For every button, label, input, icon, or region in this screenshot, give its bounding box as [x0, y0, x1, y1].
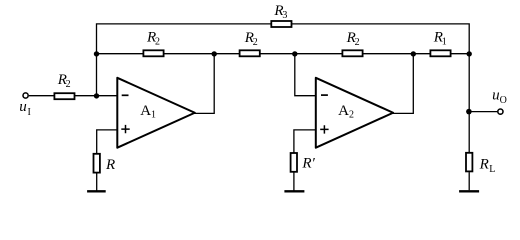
input terminal circle: [23, 93, 28, 98]
A2 minus sign: [321, 94, 328, 96]
op-amp A1: [117, 78, 195, 148]
A1 minus sign: [122, 94, 129, 96]
resistor R' (vertical): [291, 153, 297, 172]
wire A2 noninverting input down to R': [294, 130, 316, 153]
wire second rail (R2 chain): [97, 53, 470, 55]
wire output node to output terminal: [469, 111, 497, 113]
ground under R: [87, 190, 106, 192]
resistor R3: [271, 21, 291, 27]
wire rail down to A2 inverting input: [295, 54, 316, 96]
wire A1 noninverting input down to R: [97, 130, 118, 154]
resistor R2 third in rail: [342, 50, 362, 56]
svg-text:R′: R′: [301, 156, 315, 172]
wire RL to ground: [468, 172, 470, 190]
junction dot A1 output on rail: [212, 51, 217, 56]
resistor R (vertical): [94, 154, 100, 173]
svg-text:R: R: [105, 157, 115, 173]
wire input terminal to A1 inverting input: [29, 95, 117, 97]
resistor R2 second in rail: [240, 50, 260, 56]
A1 plus sign: [121, 125, 129, 133]
resistor RL (vertical): [466, 153, 472, 172]
wire A1 output up to rail: [194, 54, 214, 114]
junction dot rail right: [467, 51, 472, 56]
ground under R': [284, 190, 304, 192]
op-amp A2: [316, 78, 393, 148]
wire R' to ground: [293, 173, 295, 192]
resistor R2 first in rail: [143, 50, 163, 56]
wire A2 output up to rail: [392, 54, 413, 114]
wire top feedback rail with R3: [97, 24, 470, 153]
junction dot A2 output on rail: [411, 51, 416, 56]
junction dot output node: [466, 109, 472, 115]
resistor R1: [430, 50, 450, 56]
junction dot rail left: [94, 51, 99, 56]
junction dot input node: [94, 93, 99, 98]
wire R to ground: [96, 173, 98, 191]
ground under RL: [459, 190, 479, 192]
A2 plus sign: [320, 125, 328, 133]
junction dot A2 inverting branch on rail: [292, 51, 297, 56]
output terminal circle: [498, 109, 503, 114]
resistor R2 input: [54, 93, 74, 99]
